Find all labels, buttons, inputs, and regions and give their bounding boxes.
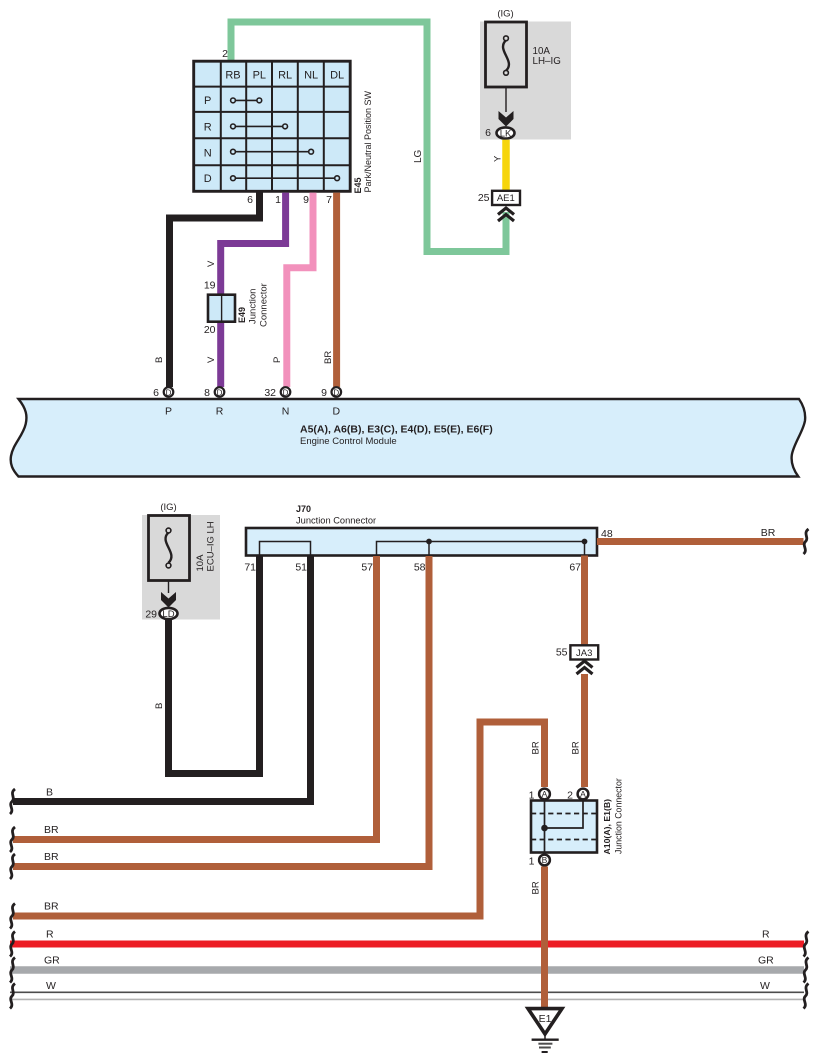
svg-text:RL: RL (278, 70, 292, 82)
svg-text:A: A (580, 789, 586, 799)
J70 internal bus 71-51 (260, 542, 311, 556)
svg-text:71: 71 (244, 562, 256, 574)
break symbol right GR (804, 958, 809, 983)
svg-text:6: 6 (153, 387, 159, 399)
svg-text:A10(A), E1(B): A10(A), E1(B) (602, 799, 612, 855)
svg-text:W: W (760, 980, 770, 992)
wire B left edge to J70 pin 51 (13, 556, 311, 802)
break symbol right R (804, 932, 809, 957)
break symbol left BR2 (10, 854, 15, 879)
wire BR left edge to J70 pin 57 (13, 556, 377, 840)
svg-text:9: 9 (321, 387, 327, 399)
wire BR left edge to junction pin 1(A) (13, 722, 545, 916)
break symbol left GR (10, 958, 15, 983)
svg-text:P: P (204, 95, 211, 107)
svg-text:1: 1 (275, 194, 281, 206)
svg-text:B: B (154, 357, 165, 363)
wire W white outline (10, 992, 804, 999)
contact row N (231, 149, 314, 154)
svg-text:32: 32 (264, 387, 276, 399)
svg-text:25: 25 (478, 192, 490, 204)
svg-text:Park/Neutral Position SW: Park/Neutral Position SW (363, 90, 373, 192)
chevrons below AE1 (498, 208, 514, 221)
svg-text:7: 7 (326, 194, 332, 206)
svg-text:Junction Connector: Junction Connector (296, 516, 376, 526)
J70 internal bus 57-58-67 (377, 542, 585, 556)
svg-text:57: 57 (361, 562, 373, 574)
svg-text:E49: E49 (237, 307, 247, 323)
connector AE1 (478, 191, 520, 205)
svg-text:6: 6 (247, 194, 253, 206)
break symbol left R (10, 932, 15, 957)
svg-text:W: W (46, 980, 56, 992)
switch E45 table (194, 61, 351, 191)
break symbol right BR48 (804, 529, 809, 554)
svg-text:LH–IG: LH–IG (533, 56, 561, 67)
wire Y yellow (502, 140, 510, 192)
svg-text:N: N (282, 406, 290, 418)
wire P pink pin9 to ECM pin 32(D) (287, 193, 313, 387)
svg-text:R: R (46, 929, 54, 941)
svg-text:E45: E45 (353, 177, 363, 193)
svg-text:NL: NL (304, 70, 318, 82)
contact row R (231, 124, 288, 129)
svg-text:D: D (166, 388, 172, 397)
svg-text:LG: LG (413, 149, 424, 163)
svg-text:LK: LK (500, 128, 512, 139)
break symbol left B (10, 789, 15, 814)
connector 6 LK (485, 127, 514, 139)
svg-text:B: B (542, 855, 548, 865)
svg-text:D: D (204, 173, 212, 185)
svg-text:BR: BR (44, 901, 59, 913)
junction connector A10(A) E1(B) (529, 778, 624, 867)
wire R red (10, 941, 804, 948)
ECM pin 32(D) (264, 387, 290, 399)
svg-text:R: R (204, 121, 212, 133)
wire BR pin 1(B) to ground E1 (541, 867, 548, 1009)
svg-text:A5(A), A6(B), E3(C), E4(D), E5: A5(A), A6(B), E3(C), E4(D), E5(E), E6(F) (300, 424, 493, 436)
wire BR brown pin7 to ECM pin 9(D) (333, 193, 340, 387)
svg-text:1: 1 (529, 856, 535, 868)
contact row D (231, 176, 340, 181)
svg-text:RB: RB (225, 70, 240, 82)
svg-text:6: 6 (485, 127, 491, 139)
svg-text:B: B (154, 703, 165, 709)
svg-text:10A: 10A (195, 554, 206, 572)
junction dot 67 (582, 539, 588, 545)
wire BR J70 pin 67 down to JA3 (581, 556, 588, 646)
chevrons below JA3 (577, 661, 593, 674)
svg-text:ECU–IG LH: ECU–IG LH (206, 521, 217, 571)
svg-text:Junction Connector: Junction Connector (614, 778, 624, 854)
svg-text:BR: BR (531, 741, 542, 754)
svg-text:V: V (206, 260, 217, 267)
wire B from LD to J70 pin 71 (169, 556, 260, 774)
ground E1 (528, 1009, 562, 1052)
svg-text:E1: E1 (539, 1013, 552, 1025)
svg-text:55: 55 (556, 647, 568, 659)
junction connector E49 (204, 280, 270, 337)
svg-text:19: 19 (204, 280, 216, 292)
svg-text:(IG): (IG) (160, 502, 176, 513)
svg-text:58: 58 (414, 562, 426, 574)
svg-text:LD: LD (162, 609, 174, 620)
svg-text:D: D (283, 388, 289, 397)
break symbol left W (10, 984, 15, 1009)
svg-text:2: 2 (222, 48, 228, 60)
svg-text:R: R (216, 406, 224, 418)
svg-text:BR: BR (571, 741, 582, 754)
wire BR JA3 to pin 2(A) (581, 674, 588, 787)
svg-text:BR: BR (323, 351, 334, 364)
junction dot 58 (426, 539, 432, 545)
wire B black pin6 to ECM pin 6(D) (170, 191, 260, 387)
junction connector J70 (246, 504, 597, 556)
wire V purple pin1 to ECM pin 8(D) (221, 193, 286, 387)
ECM pin 8(D) (204, 387, 224, 399)
wire BR J70 pin 48 to right edge (597, 538, 804, 545)
break symbol left BR1 (10, 827, 15, 852)
svg-text:R: R (762, 929, 770, 941)
svg-text:29: 29 (145, 609, 157, 621)
svg-text:BR: BR (531, 881, 542, 894)
svg-text:67: 67 (569, 562, 581, 574)
svg-text:J70: J70 (296, 504, 311, 514)
svg-text:AE1: AE1 (497, 193, 515, 204)
svg-text:N: N (204, 148, 212, 160)
svg-text:Y: Y (493, 155, 504, 162)
wire GR gray (10, 966, 804, 974)
svg-text:D: D (333, 388, 339, 397)
svg-text:8: 8 (204, 387, 210, 399)
fuse ECU-IG LH (142, 502, 220, 620)
svg-text:PL: PL (253, 70, 266, 82)
svg-text:JA3: JA3 (576, 648, 592, 659)
fuse LH-IG (480, 9, 571, 140)
svg-text:A: A (542, 789, 548, 799)
ECM pin 6(D) (153, 387, 173, 399)
svg-text:D: D (333, 406, 341, 418)
svg-text:V: V (206, 356, 217, 363)
svg-text:(IG): (IG) (497, 9, 513, 20)
svg-text:GR: GR (758, 955, 774, 967)
contact row P (231, 98, 262, 103)
svg-text:Engine Control Module: Engine Control Module (300, 436, 397, 447)
svg-text:Junction: Junction (248, 289, 259, 324)
connector JA3 (556, 645, 598, 659)
svg-text:BR: BR (44, 851, 59, 863)
connector 29 LD (145, 608, 177, 621)
ECM pin 9(D) (321, 387, 341, 399)
svg-text:DL: DL (330, 70, 344, 82)
svg-text:P: P (165, 406, 172, 418)
wire BR left edge to J70 pin 58 (13, 556, 429, 867)
svg-text:BR: BR (761, 527, 776, 539)
ECM band Engine Control Module (11, 399, 805, 477)
svg-text:BR: BR (44, 824, 59, 836)
svg-text:9: 9 (303, 194, 309, 206)
svg-text:P: P (272, 357, 283, 363)
wire LG (green) from E45 pin 2 to AE1 (231, 22, 506, 252)
svg-text:51: 51 (295, 562, 307, 574)
svg-text:GR: GR (44, 955, 60, 967)
svg-text:20: 20 (204, 324, 216, 336)
svg-text:D: D (217, 388, 223, 397)
svg-text:Connector: Connector (259, 283, 270, 327)
svg-text:B: B (46, 787, 53, 799)
break symbol right W (804, 984, 809, 1009)
break symbol left BR3 (10, 904, 15, 929)
